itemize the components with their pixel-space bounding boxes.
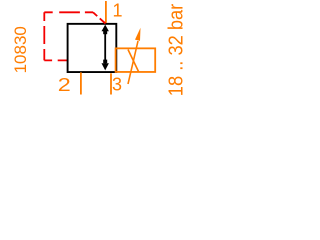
svg-text:3: 3 xyxy=(112,75,122,95)
svg-text:10830: 10830 xyxy=(11,26,30,73)
svg-text:2: 2 xyxy=(58,75,71,95)
svg-text:1: 1 xyxy=(113,0,123,20)
svg-text:18 .. 32 bar: 18 .. 32 bar xyxy=(164,3,187,96)
